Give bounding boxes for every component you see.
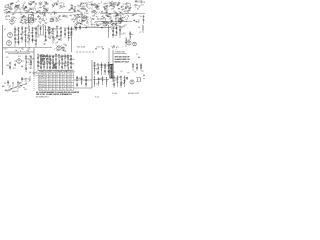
svg-text:-8: -8 <box>63 86 65 88</box>
svg-text:330: 330 <box>29 56 32 58</box>
svg-text:R7: R7 <box>27 28 29 30</box>
svg-text:63: 63 <box>49 86 51 88</box>
svg-text:.1: .1 <box>27 51 29 53</box>
svg-text:.1: .1 <box>108 2 110 4</box>
svg-text:25: 25 <box>56 79 58 81</box>
svg-text:45: 45 <box>67 86 69 88</box>
svg-text:330: 330 <box>114 35 116 37</box>
svg-text:R3: R3 <box>58 36 60 38</box>
svg-text:C38: C38 <box>127 73 130 75</box>
svg-text:63: 63 <box>70 86 72 88</box>
svg-text:.05: .05 <box>120 71 122 73</box>
svg-text:C41: C41 <box>141 71 144 73</box>
svg-text:R7: R7 <box>39 13 41 15</box>
svg-text:C4: C4 <box>27 12 29 14</box>
svg-text:C31 .05: C31 .05 <box>96 47 103 49</box>
svg-text:470: 470 <box>19 9 21 11</box>
svg-text:GT: GT <box>141 5 144 7</box>
svg-text:.05: .05 <box>27 78 29 80</box>
svg-text:.1: .1 <box>24 2 26 4</box>
svg-text:.02: .02 <box>30 8 32 10</box>
svg-text:95: 95 <box>56 86 58 88</box>
svg-text:R7: R7 <box>45 3 47 5</box>
svg-text:S1: S1 <box>4 83 6 85</box>
svg-text:C9: C9 <box>29 68 32 70</box>
svg-text:6SK7: 6SK7 <box>39 79 45 81</box>
svg-text:6K6: 6K6 <box>6 65 9 67</box>
svg-text:-8: -8 <box>60 89 62 91</box>
svg-text:C4: C4 <box>16 39 18 41</box>
svg-text:45: 45 <box>63 89 65 91</box>
svg-text:C16: C16 <box>90 1 92 3</box>
svg-text:.05: .05 <box>58 28 60 30</box>
svg-text:22: 22 <box>126 6 128 8</box>
svg-text:25: 25 <box>60 84 62 86</box>
svg-text:C4: C4 <box>93 5 95 7</box>
svg-text:C9: C9 <box>93 11 95 13</box>
svg-text:45: 45 <box>67 89 69 91</box>
svg-text:22: 22 <box>15 10 17 12</box>
svg-text:R9: R9 <box>112 48 114 50</box>
svg-text:22: 22 <box>62 49 64 51</box>
svg-text:PIL: PIL <box>39 89 45 91</box>
svg-text:330: 330 <box>53 40 55 42</box>
svg-text:6SQ7: 6SQ7 <box>39 81 45 83</box>
svg-text:330: 330 <box>27 38 29 40</box>
svg-text:C12: C12 <box>123 33 126 35</box>
svg-text:D-104: D-104 <box>112 93 117 95</box>
svg-text:470: 470 <box>29 64 32 66</box>
svg-text:V2: V2 <box>6 57 8 59</box>
svg-text:330: 330 <box>111 8 113 10</box>
svg-text:22: 22 <box>23 79 25 81</box>
svg-text:22: 22 <box>103 4 105 6</box>
svg-text:MODELS 5T ONLY: MODELS 5T ONLY <box>115 61 130 63</box>
svg-text:95: 95 <box>45 86 47 88</box>
svg-text:R3: R3 <box>16 35 18 37</box>
svg-text:-8: -8 <box>70 76 72 78</box>
svg-text:95: 95 <box>49 74 51 76</box>
svg-text:V1: V1 <box>4 29 6 31</box>
svg-text:25: 25 <box>63 76 65 78</box>
svg-text:-8: -8 <box>53 81 55 83</box>
svg-text:C7: C7 <box>139 32 141 34</box>
svg-text:L7: L7 <box>134 72 136 74</box>
svg-text:R7: R7 <box>115 80 117 82</box>
svg-text:-8: -8 <box>53 79 55 81</box>
svg-text:C4: C4 <box>21 48 23 50</box>
svg-text:-8: -8 <box>60 79 62 81</box>
svg-text:R7: R7 <box>135 1 137 3</box>
svg-text:330: 330 <box>86 4 88 6</box>
svg-text:25: 25 <box>56 81 58 83</box>
svg-text:.02: .02 <box>60 2 62 4</box>
svg-text:6K6G: 6K6G <box>39 84 44 86</box>
svg-text:470: 470 <box>81 21 83 23</box>
svg-text:470: 470 <box>34 13 36 15</box>
svg-text:330: 330 <box>72 59 74 61</box>
svg-text:45: 45 <box>49 84 51 86</box>
svg-text:.05: .05 <box>29 72 32 74</box>
svg-text:ANT: ANT <box>2 85 5 88</box>
svg-text:330: 330 <box>44 13 46 15</box>
svg-text:22: 22 <box>115 77 117 79</box>
svg-text:.1: .1 <box>135 13 137 15</box>
svg-text:BAND SW: BAND SW <box>12 90 19 93</box>
svg-text:T2: T2 <box>137 9 139 11</box>
svg-text:R22 2.2M: R22 2.2M <box>77 47 86 49</box>
svg-text:R3: R3 <box>73 22 75 24</box>
svg-text:470: 470 <box>110 6 112 8</box>
svg-text:R7: R7 <box>113 16 115 18</box>
svg-text:R7: R7 <box>59 16 61 18</box>
svg-text:R3: R3 <box>23 17 25 19</box>
svg-text:45: 45 <box>49 81 51 83</box>
svg-text:5Y3G: 5Y3G <box>39 86 44 88</box>
svg-text:C16: C16 <box>27 62 29 64</box>
svg-text:R3: R3 <box>64 16 66 18</box>
svg-text:.05: .05 <box>127 40 129 42</box>
svg-text:.05: .05 <box>121 26 123 28</box>
svg-text:R3: R3 <box>60 5 62 7</box>
svg-text:.05: .05 <box>9 9 11 11</box>
svg-text:.02: .02 <box>122 9 124 11</box>
svg-text:330: 330 <box>96 68 98 70</box>
svg-text:45: 45 <box>45 84 47 86</box>
svg-text:.05: .05 <box>23 21 25 23</box>
svg-text:95: 95 <box>56 89 58 91</box>
svg-text:R31: R31 <box>113 72 116 74</box>
svg-text:.1: .1 <box>82 8 84 10</box>
svg-text:C16: C16 <box>81 13 83 15</box>
svg-text:C16: C16 <box>124 25 126 27</box>
svg-text:45: 45 <box>67 81 69 83</box>
svg-text:C22: C22 <box>18 56 21 58</box>
svg-text:45: 45 <box>53 76 55 78</box>
svg-text:.1: .1 <box>23 35 25 37</box>
svg-text:.05: .05 <box>96 83 98 85</box>
svg-text:330: 330 <box>32 59 34 61</box>
svg-text:C16: C16 <box>40 3 42 5</box>
svg-text:R3: R3 <box>115 3 117 5</box>
svg-text:6SQ7: 6SQ7 <box>4 49 8 51</box>
svg-text:.05: .05 <box>90 24 92 26</box>
svg-text:.1: .1 <box>106 12 108 14</box>
svg-text:R15: R15 <box>13 68 16 70</box>
svg-text:.1: .1 <box>100 2 102 4</box>
svg-text:MODEL 5T-6T: MODEL 5T-6T <box>128 93 139 95</box>
svg-text:T3: T3 <box>136 54 138 56</box>
svg-text:-8: -8 <box>63 74 65 76</box>
svg-text:NO SIGNAL INPUT.: NO SIGNAL INPUT. <box>36 95 49 98</box>
svg-text:TUBE: TUBE <box>39 74 44 76</box>
svg-text:C16: C16 <box>19 82 21 84</box>
svg-text:-8: -8 <box>45 76 47 78</box>
svg-text:S-12: S-12 <box>95 97 99 99</box>
svg-text:R7: R7 <box>5 5 7 7</box>
svg-text:L4: L4 <box>138 27 140 29</box>
